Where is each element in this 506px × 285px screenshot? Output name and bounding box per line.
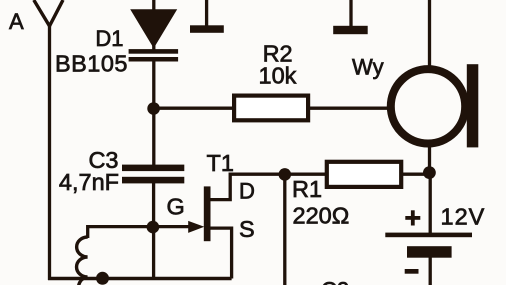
ground 1 bar: [190, 25, 224, 33]
svg-text:D1: D1: [95, 26, 123, 51]
wire (node to R1): [286, 173, 326, 176]
inductor L1 coil: [77, 237, 97, 285]
svg-text:10k: 10k: [259, 62, 297, 88]
resistor R1 body: [327, 162, 401, 187]
node dot (earphone/R1/battery): [423, 166, 436, 179]
wire (earphone top feed): [428, 0, 431, 67]
svg-text:220Ω: 220Ω: [293, 202, 350, 228]
wire (T1 drain to node): [210, 174, 286, 199]
svg-text:S: S: [239, 216, 255, 242]
transistor T1 channel bar: [204, 186, 211, 241]
capacitor C3 plate 2: [122, 177, 184, 184]
antenna A: [34, 0, 63, 26]
wire (C3 to G node to rail): [152, 182, 155, 280]
svg-text:Wy: Wy: [352, 55, 384, 80]
svg-text:D: D: [239, 179, 255, 204]
svg-text:R1: R1: [292, 176, 322, 202]
resistor R2 body: [234, 96, 308, 121]
wire (top feed to D1): [152, 0, 155, 50]
battery 12V bottom plate (-): [407, 246, 452, 258]
wire (battery - down): [429, 257, 432, 285]
svg-text:12V: 12V: [441, 203, 486, 229]
svg-text:C2: C2: [321, 278, 349, 285]
node G dot: [147, 221, 160, 234]
svg-text:BB105: BB105: [55, 51, 128, 77]
wire (node to R2): [154, 107, 233, 110]
diode D1 varicap cathode bar 1: [129, 49, 179, 54]
svg-text:T1: T1: [207, 150, 234, 176]
wire (node to battery +): [429, 174, 432, 234]
earphone Wy bar: [467, 64, 479, 147]
svg-text:G: G: [167, 193, 185, 219]
earphone Wy circle: [391, 69, 465, 143]
wire (ground 2 stem): [349, 0, 352, 28]
wire (node down left of C2): [283, 174, 286, 285]
minus sign: [405, 269, 419, 274]
battery 12V top plate (+): [385, 233, 472, 238]
node dot (T1 drain / R1): [279, 168, 292, 181]
node dot (coil tap on rail): [96, 272, 109, 285]
wire (ground 1 stem): [205, 0, 208, 27]
plus sign: [405, 216, 420, 220]
capacitor C3 plate 1: [122, 165, 184, 172]
wire (T1 source to rail): [210, 228, 231, 278]
wire (R1 to battery node): [402, 173, 430, 176]
wire (earphone bottom to node): [428, 145, 431, 174]
wire (R2 to earphone): [310, 107, 389, 110]
wire (D1 to C3): [152, 60, 155, 166]
wire (gate wire from G node): [154, 225, 191, 228]
diode D1 varicap cathode bar 2: [129, 57, 179, 62]
wire (antenna stem / left rail): [48, 25, 51, 280]
wire (G node to coil top): [88, 227, 154, 238]
transistor T1 gate arrowhead: [188, 221, 204, 233]
ground 2 bar: [333, 26, 368, 34]
svg-text:A: A: [9, 9, 24, 34]
svg-text:4,7nF: 4,7nF: [59, 169, 119, 195]
node dot (D1/R2): [147, 102, 160, 115]
wire (bottom rail): [48, 277, 232, 281]
diode D1 varicap triangle: [130, 9, 177, 48]
